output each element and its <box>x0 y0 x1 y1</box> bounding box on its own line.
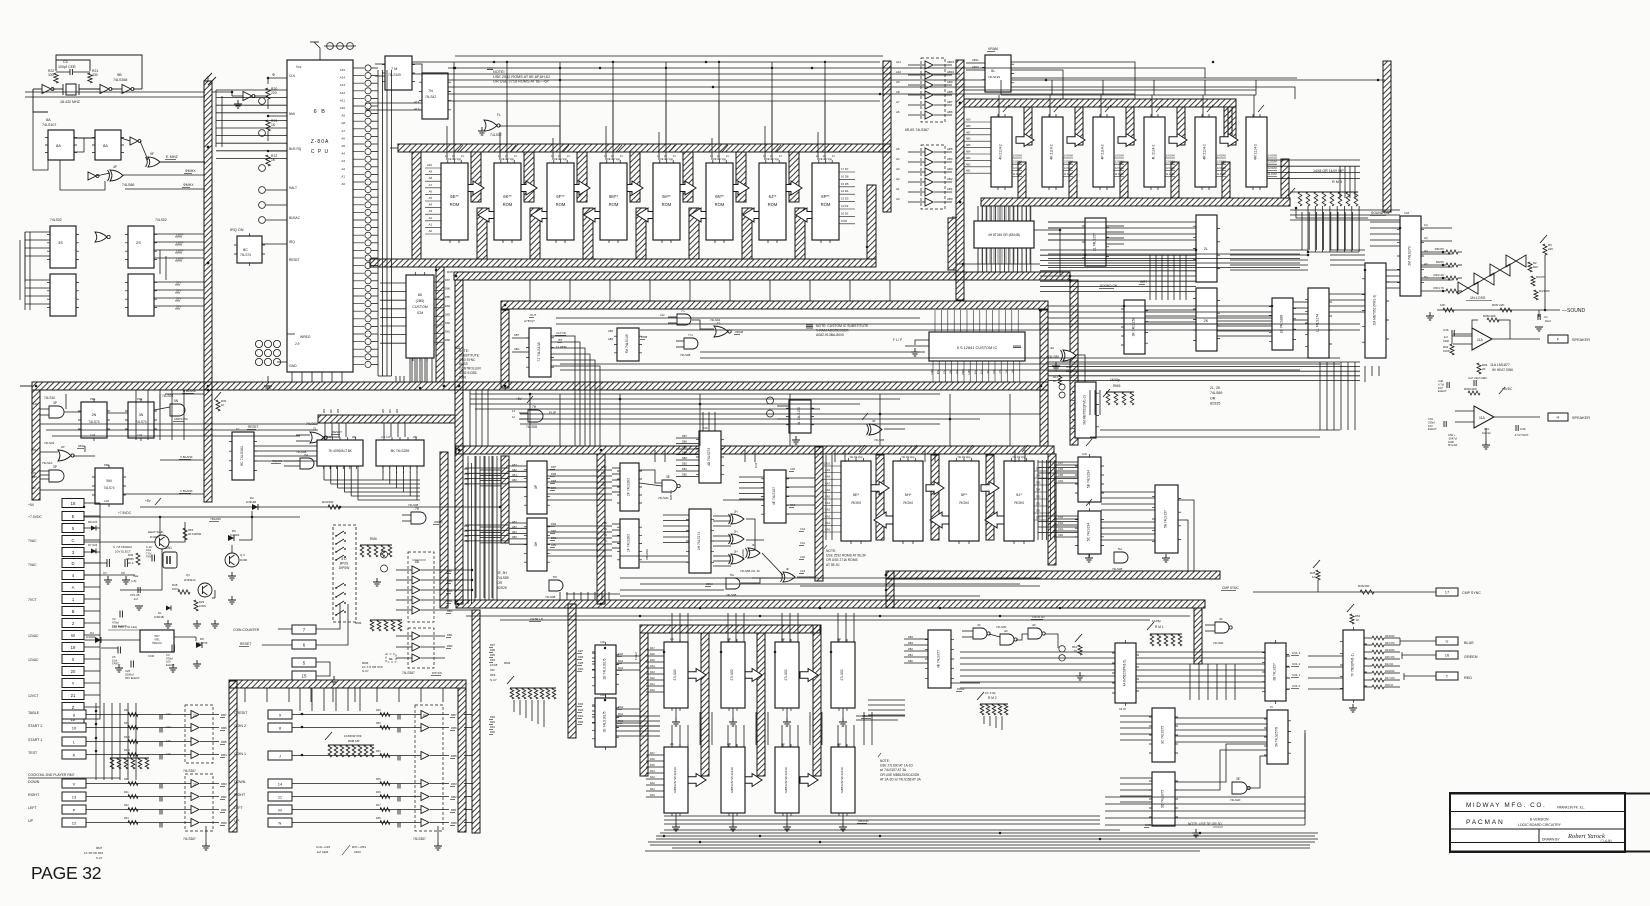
output box GREEN <box>1436 651 1458 659</box>
resistor R96/22K <box>1500 308 1512 312</box>
5J data stubs <box>1034 471 1048 520</box>
gnd below 2C <box>783 823 791 831</box>
svg-text:DRA2: DRA2 <box>957 687 965 691</box>
AND 4C d <box>1215 622 1229 633</box>
svg-text:W/ HEAT SINK: W/ HEAT SINK <box>1492 368 1514 372</box>
svg-text:3H: 3H <box>534 541 538 546</box>
svg-text:A11: A11 <box>896 60 901 64</box>
wire bus: vertical bar mid video frame <box>597 454 605 604</box>
diode D6 1N4004 <box>228 535 234 541</box>
svg-text:CE CE Vpp: CE CE Vpp <box>554 157 568 161</box>
svg-text:D6: D6 <box>232 529 236 533</box>
transistor Q3 D400 <box>225 553 239 567</box>
svg-text:1E 74LS161/5: 1E 74LS161/5 <box>603 711 607 732</box>
svg-text:3E: 3E <box>1236 777 1240 781</box>
svg-text:X: X <box>72 657 75 662</box>
svg-text:DB2: DB2 <box>682 463 687 466</box>
svg-text:AB3: AB3 <box>512 464 517 467</box>
svg-text:7VCT: 7VCT <box>28 598 37 602</box>
gnd color left <box>1076 672 1084 680</box>
AND 7H c 74LS08 <box>411 512 426 524</box>
svg-text:AT 2A-2D w/ 74LS158 AT 3A: AT 2A-2D w/ 74LS158 AT 3A <box>880 777 922 781</box>
wire bundle right of bus A to video <box>488 456 490 600</box>
svg-text:9 D0: 9 D0 <box>841 219 847 223</box>
AND 4C c <box>1028 628 1042 639</box>
ROM 6N <box>706 163 733 240</box>
svg-text:WRT: WRT <box>1140 280 1147 284</box>
svg-text:DB7: DB7 <box>447 569 453 573</box>
svg-text:7L: 7L <box>313 427 317 431</box>
svg-text:16V: 16V <box>601 484 606 487</box>
svg-text:V BLANK: V BLANK <box>180 455 193 459</box>
svg-text:100K: 100K <box>1443 349 1450 353</box>
svg-text:C16: C16 <box>166 753 171 756</box>
svg-text:A1: A1 <box>341 174 345 178</box>
svg-text:4R 10W5W: 4R 10W5W <box>188 532 202 536</box>
svg-text:5N: 5N <box>553 575 557 579</box>
svg-text:4L 2114-2: 4L 2114-2 <box>1152 144 1156 159</box>
svg-text:START 2: START 2 <box>28 724 42 728</box>
svg-text:NOTE!: NOTE! <box>493 70 505 74</box>
svg-text:LOGIC BOARD CIRCUITRY: LOGIC BOARD CIRCUITRY <box>1518 823 1562 827</box>
svg-text:RA4: RA4 <box>650 770 655 773</box>
RAM 4N 2114-2 <box>991 117 1012 187</box>
svg-text:ROM: ROM <box>1014 500 1023 505</box>
svg-text:7F 7603(PM1-1): 7F 7603(PM1-1) <box>1351 653 1355 676</box>
svg-text:R8/470: R8/470 <box>1435 247 1445 251</box>
svg-text:R95/100K: R95/100K <box>1483 314 1496 318</box>
buffer bank 2H 74LS367 <box>185 705 213 763</box>
capacitor CP1-05 <box>138 587 140 593</box>
svg-text:NOTE:: NOTE: <box>459 349 469 353</box>
svg-text:12 DVM: 12 DVM <box>1013 167 1022 170</box>
RAM 4N address stubs <box>964 122 991 173</box>
svg-text:8H: 8H <box>993 370 996 373</box>
svg-text:1K: 1K <box>1074 649 1078 653</box>
svg-text:3N: 3N <box>139 413 144 417</box>
svg-text:11 DVM: 11 DVM <box>1166 173 1174 176</box>
svg-text:1K X 8p: 1K X 8p <box>985 691 996 695</box>
wire bus: char ROM row bars <box>815 447 823 581</box>
svg-text:.47uf TANT.: .47uf TANT. <box>1514 433 1529 437</box>
IC 7M 74LS109 <box>385 56 412 90</box>
svg-text:CA2: CA2 <box>800 527 806 531</box>
ROM 6E <box>441 163 468 240</box>
svg-text:6H**: 6H** <box>662 194 671 199</box>
svg-text:8V: 8V <box>604 522 607 525</box>
note use 2532 roms char <box>824 545 827 549</box>
svg-text:74LS86 2H, 4F: 74LS86 2H, 4F <box>740 569 760 573</box>
svg-text:DB6: DB6 <box>682 441 687 444</box>
svg-text:E: E <box>72 514 75 519</box>
aux connector 5 <box>292 658 316 667</box>
svg-text:R4/100K: R4/100K <box>1539 289 1550 293</box>
svg-text:16Y: 16Y <box>176 305 181 309</box>
svg-text:16: 16 <box>1445 653 1450 658</box>
svg-text:M: M <box>278 808 281 813</box>
svg-text:74LS02: 74LS02 <box>155 218 167 222</box>
svg-text:256H: 256H <box>78 444 85 448</box>
svg-text:S.I.P: S.I.P <box>490 678 497 682</box>
svg-text:RESET: RESET <box>332 430 342 434</box>
svg-text:1M MB7052 (PM1-3): 1M MB7052 (PM1-3) <box>1373 295 1377 326</box>
wire sprite lower bundle <box>664 815 1100 817</box>
IC 6D 2B5 CUSTOM sync bus controller <box>406 275 434 358</box>
svg-text:11A LM1877: 11A LM1877 <box>1490 363 1510 367</box>
svg-text:DB6: DB6 <box>447 579 453 583</box>
svg-text:AB0: AB0 <box>947 197 953 201</box>
wires vr area <box>84 639 140 641</box>
svg-text:DB7: DB7 <box>682 435 687 438</box>
IC 2B MB8125 sprite ram <box>721 747 745 813</box>
svg-text:D1: D1 <box>158 611 162 615</box>
AND 7H b 74LS08 <box>300 458 314 469</box>
flip-flop 3N 74LS74 b <box>128 402 154 438</box>
wire bus: bottom bus right elbow <box>1194 608 1202 664</box>
svg-text:MIDWAY MFG. CO.: MIDWAY MFG. CO. <box>1466 802 1546 809</box>
svg-text:5N: 5N <box>174 399 179 403</box>
resistor R92 100K <box>1450 344 1454 355</box>
svg-text:RIGHT: RIGHT <box>234 793 246 797</box>
svg-text:K: K <box>73 753 76 758</box>
ROM 6P data stubs <box>839 172 855 224</box>
wire select drops to RAM <box>1000 80 1002 95</box>
svg-text:ROM: ROM <box>903 500 912 505</box>
svg-text:330uf: 330uf <box>1428 420 1435 424</box>
IC 3A 74LS157 b <box>1267 710 1288 764</box>
wires counters to bus <box>25 231 50 233</box>
svg-text:RA5: RA5 <box>650 764 655 767</box>
svg-text:R93/100K: R93/100K <box>1464 387 1477 391</box>
wire bus: short bus above decoder 7K/8K <box>318 415 455 423</box>
svg-text:D80: D80 <box>445 338 450 342</box>
svg-text:14 DVM: 14 DVM <box>1217 155 1226 158</box>
svg-text:N: N <box>279 821 282 826</box>
6D left stubs <box>380 282 406 284</box>
svg-text:10: 10 <box>72 726 77 731</box>
svg-text:CD5: CD5 <box>1058 474 1064 477</box>
svg-text:RA2: RA2 <box>618 705 624 709</box>
IC 3F char latch <box>527 461 547 514</box>
svg-text:RA2: RA2 <box>650 782 655 785</box>
svg-text:4E 74LS157: 4E 74LS157 <box>772 487 776 505</box>
svg-text:.1uf CER.: .1uf CER. <box>316 850 329 854</box>
svg-text:ROM: ROM <box>768 202 778 207</box>
resistor R22 330 <box>54 73 58 83</box>
NOR 2P 74LS02 <box>58 450 71 461</box>
svg-text:A12: A12 <box>414 107 420 111</box>
svg-text:V-RAM ADDRESSER: V-RAM ADDRESSER <box>816 329 849 333</box>
svg-text:1N914B: 1N914B <box>246 500 256 504</box>
wire sprite row links <box>616 715 660 717</box>
svg-text:7K 4099/ALT.8K: 7K 4099/ALT.8K <box>328 449 352 453</box>
svg-text:A2: A2 <box>896 177 900 181</box>
svg-text:DR6: DR6 <box>578 655 584 659</box>
svg-text:RA1: RA1 <box>618 712 624 716</box>
capacitor C5 10uf TANT <box>118 647 120 654</box>
IC 2C MB8125 sprite ram <box>775 747 799 813</box>
svg-text:AB1: AB1 <box>389 408 392 413</box>
wire color verticals <box>1189 664 1191 700</box>
junction dots on wire crossings <box>454 67 457 70</box>
svg-text:CMP SYNC: CMP SYNC <box>1462 591 1481 595</box>
AND 4C b <box>1000 634 1014 645</box>
svg-text:14 DVM: 14 DVM <box>1013 155 1022 158</box>
svg-text:OR USE 2716 ROMS AT 6E—6P: OR USE 2716 ROMS AT 6E—6P <box>493 80 549 84</box>
svg-text:74LS10: 74LS10 <box>44 396 55 400</box>
svg-text:13 DVM: 13 DVM <box>1166 161 1175 164</box>
svg-text:6 MHZ: 6 MHZ <box>634 652 638 660</box>
svg-text:MB8125/ SC42439: MB8125/ SC42439 <box>840 767 844 793</box>
svg-text:RM7: RM7 <box>96 846 103 850</box>
svg-text:UP: UP <box>28 819 34 823</box>
svg-text:COIN COUNTER: COIN COUNTER <box>233 628 260 632</box>
svg-text:AT 5E-5J: AT 5E-5J <box>826 563 840 567</box>
wire horizontals label rails mid <box>40 423 318 425</box>
svg-text:COL 0: COL 0 <box>1292 684 1301 688</box>
wires RM4 down <box>513 700 515 712</box>
ROM 6H <box>653 163 680 240</box>
inverter 9B c <box>130 137 138 145</box>
svg-text:CER: CER <box>1443 339 1449 343</box>
resistor R54 1K <box>1350 614 1354 624</box>
svg-text:USE 2532 ROMS AT 5E,5F: USE 2532 ROMS AT 5E,5F <box>826 554 866 558</box>
svg-text:D07: D07 <box>1036 468 1041 471</box>
gnd lower amp <box>1482 441 1490 449</box>
svg-text:R M 2: R M 2 <box>988 696 997 700</box>
RM6 resistor network <box>360 544 392 546</box>
IC 2K sound ram <box>1196 288 1217 351</box>
svg-text:15: 15 <box>301 674 307 679</box>
svg-text:11A: 11A <box>1477 338 1484 342</box>
wire timing crossbars <box>65 394 67 409</box>
svg-text:5H: 5H <box>730 573 734 577</box>
svg-text:GND: GND <box>289 364 297 368</box>
CPU top power stub <box>314 42 320 60</box>
op-amp 11A lower <box>1474 406 1494 428</box>
IC 2D MB8125 sprite ram <box>831 747 855 813</box>
svg-text:17: 17 <box>1445 590 1450 595</box>
svg-text:9B: 9B <box>117 73 122 77</box>
svg-text:A0: A0 <box>429 229 433 233</box>
wire bus: RAM bottom bus right elbow up <box>1281 159 1289 198</box>
svg-text:FLIP: FLIP <box>549 411 557 415</box>
svg-text:RA5: RA5 <box>618 652 624 656</box>
svg-text:R38: R38 <box>124 709 129 712</box>
svg-text:14 DVM: 14 DVM <box>1268 155 1277 158</box>
capacitor C48 4.7uf 10V ELECT <box>1447 382 1449 388</box>
svg-text:UP: UP <box>234 819 240 823</box>
svg-text:BUS RQ: BUS RQ <box>289 147 302 151</box>
svg-text:NOTE:: NOTE: <box>826 549 836 553</box>
svg-text:14 D4: 14 D4 <box>841 189 849 193</box>
wires 4c gates <box>962 630 973 632</box>
svg-text:.1uf: .1uf <box>133 597 138 601</box>
svg-text:R13/220: R13/220 <box>1385 649 1395 652</box>
svg-text:8000: 8000 <box>459 375 466 379</box>
svg-text:5A 74LS157: 5A 74LS157 <box>1164 510 1168 528</box>
svg-text:B: B <box>72 609 75 614</box>
svg-text:DB7: DB7 <box>451 713 457 717</box>
wire video frame left verticals <box>474 456 476 600</box>
svg-text:10K: 10K <box>1440 303 1445 307</box>
svg-text:R36: R36 <box>128 553 134 557</box>
resistor R28 10KA <box>178 590 190 594</box>
svg-text:A1: A1 <box>429 222 433 226</box>
wire bus: sprite column bar 3 <box>757 633 765 776</box>
svg-text:RA3: RA3 <box>650 776 655 779</box>
svg-text:VRAM: VRAM <box>735 330 744 334</box>
svg-text:A3: A3 <box>341 159 345 163</box>
svg-text:DB3: DB3 <box>908 642 913 645</box>
svg-text:+7.5VDC: +7.5VDC <box>118 511 132 515</box>
svg-text:2N3391A: 2N3391A <box>184 578 196 582</box>
counter 2S second row <box>128 274 154 316</box>
wire bus: ROM row top data/address bus <box>398 144 891 152</box>
svg-text:A0: A0 <box>341 182 345 186</box>
svg-text:OR: OR <box>497 581 503 585</box>
svg-text:10 D1: 10 D1 <box>841 211 849 215</box>
svg-text:ABT: ABT <box>514 333 519 337</box>
svg-text:RESET: RESET <box>289 258 300 262</box>
svg-text:74LS74: 74LS74 <box>240 253 251 257</box>
svg-text:12 DVM: 12 DVM <box>1166 167 1175 170</box>
svg-text:DB1: DB1 <box>908 654 913 657</box>
svg-text:AB5: AB5 <box>966 144 971 147</box>
IC 2L sound ram addr <box>1196 215 1217 282</box>
wires 2E <box>592 651 595 653</box>
svg-text:4B 74LS377: 4B 74LS377 <box>937 650 941 668</box>
svg-text:DR6: DR6 <box>490 649 496 652</box>
svg-text:C4: C4 <box>63 60 68 64</box>
svg-text:w/ 74LS157 AT 3A: w/ 74LS157 AT 3A <box>880 768 907 772</box>
wire bus: sprite block top bus <box>640 625 820 633</box>
wire bus: vertical link left of note 6D <box>436 267 444 382</box>
svg-text:12 DVM: 12 DVM <box>1064 167 1073 170</box>
svg-text:C: C <box>71 538 74 543</box>
svg-text:TABLE: TABLE <box>28 711 40 715</box>
wire extra top rails <box>455 55 883 57</box>
wire bus: sound section vertical bar <box>1383 61 1391 212</box>
svg-text:U: U <box>1446 639 1449 644</box>
svg-text:AB0: AB0 <box>323 408 326 413</box>
buffer bank 8D 74LS367 <box>408 552 434 622</box>
keypad circle grid GND <box>255 340 262 347</box>
svg-text:A11: A11 <box>340 98 345 102</box>
svg-text:H: H <box>1557 415 1560 420</box>
svg-text:DB6: DB6 <box>221 726 227 730</box>
svg-text:ABG: ABG <box>514 347 519 351</box>
wire mesh sound lower verticals <box>1319 362 1321 430</box>
svg-text:BUSS: BUSS <box>459 362 468 366</box>
IC 2M 74LS273 sound latch <box>1400 216 1421 296</box>
svg-text:R96/ 22K: R96/ 22K <box>1492 303 1505 307</box>
svg-text:OR USE 2716 ROMS: OR USE 2716 ROMS <box>826 558 858 562</box>
svg-text:6D: 6D <box>418 293 423 297</box>
wire bus: video frame bottom bus upper (right) <box>886 571 1220 579</box>
svg-text:ΦMHX: ΦMHX <box>183 183 194 187</box>
sound output latch wires <box>1421 227 1452 229</box>
ROM 6M <box>600 163 627 240</box>
svg-text:DR7: DR7 <box>578 649 584 653</box>
wire bus: left vertical address bus <box>204 81 212 502</box>
svg-text:82S25: 82S25 <box>1210 402 1220 406</box>
svg-text:AB1: AB1 <box>330 408 333 413</box>
svg-text:7VAC: 7VAC <box>28 563 37 567</box>
svg-text:4H 8T245 OR (8304B): 4H 8T245 OR (8304B) <box>988 233 1020 237</box>
wire oscillator loop <box>33 88 42 90</box>
wire loops below <box>1105 796 1305 798</box>
wire input top crossings <box>299 688 301 711</box>
svg-text:CE CE Vpp: CE CE Vpp <box>448 157 462 161</box>
svg-text:DB4: DB4 <box>221 753 227 757</box>
svg-text:—SOUND: —SOUND <box>1562 308 1585 314</box>
svg-text:D05: D05 <box>1036 482 1041 485</box>
svg-text:100K: 100K <box>1448 440 1454 444</box>
svg-text:R43: R43 <box>124 817 129 820</box>
svg-text:DB3: DB3 <box>451 782 457 786</box>
wire bus: sprite column bar 4 <box>813 625 821 776</box>
svg-text:DB2: DB2 <box>447 644 453 648</box>
long wires from 5L to RAM selects <box>1011 62 1135 99</box>
IC 2E 74LS161 <box>595 645 616 694</box>
svg-text:D6: D6 <box>200 637 204 641</box>
speaker F box <box>1548 335 1568 343</box>
svg-text:R14 1K: R14 1K <box>1385 663 1394 666</box>
wire bundle below 4H to bus2 <box>956 263 1040 265</box>
svg-text:DB0: DB0 <box>464 540 469 543</box>
crystal Y1 18.432MHZ <box>66 84 76 95</box>
diode D6b 1N4735 <box>196 642 202 648</box>
svg-text:A4: A4 <box>896 157 900 161</box>
svg-text:DB5: DB5 <box>447 589 453 593</box>
svg-text:64H: 64H <box>31 472 36 475</box>
wire verticals below 5S <box>1089 390 1091 415</box>
svg-text:DB3: DB3 <box>682 457 687 460</box>
svg-text:4D 74LS273: 4D 74LS273 <box>707 448 711 466</box>
svg-text:AB2: AB2 <box>966 163 971 166</box>
svg-text:LEFT: LEFT <box>234 806 244 810</box>
wires RM2 down <box>983 716 985 724</box>
svg-text:C13: C13 <box>166 713 171 716</box>
svg-text:3A 74LS157/8: 3A 74LS157/8 <box>1275 727 1279 747</box>
gnd below 1B <box>729 718 737 726</box>
svg-text:10KA: 10KA <box>172 587 179 591</box>
svg-text:14: 14 <box>278 782 283 787</box>
svg-text:1KX5p: 1KX5p <box>1110 378 1120 382</box>
wires CPU left pins <box>267 99 269 109</box>
svg-text:7J 74LS138: 7J 74LS138 <box>537 342 541 361</box>
IC 7K 4099 <box>317 440 363 466</box>
svg-text:DB2: DB2 <box>908 648 913 651</box>
wires 7K/8K up to mini bus <box>324 423 326 437</box>
ROM 5F char/sprite <box>949 461 979 541</box>
wire counters to bus verticals <box>24 232 26 310</box>
wire bundle sound right <box>1293 301 1308 303</box>
inverter 9B d <box>88 172 96 180</box>
IC 7N 74LS42 <box>422 73 448 119</box>
caps at 5L <box>767 397 774 417</box>
svg-text:6F**: 6F** <box>556 194 565 199</box>
XOR 9F 74LS86 <box>148 157 160 167</box>
wire verticals inside frame left <box>467 456 469 598</box>
svg-text:25V ELECT.: 25V ELECT. <box>125 676 140 680</box>
svg-text:DB3: DB3 <box>221 782 227 786</box>
svg-text:C15: C15 <box>166 740 171 743</box>
output box 17 cmp sync <box>1436 588 1458 596</box>
svg-text:8E: 8E <box>389 657 393 661</box>
svg-text:1N-LOSS: 1N-LOSS <box>1470 296 1486 300</box>
